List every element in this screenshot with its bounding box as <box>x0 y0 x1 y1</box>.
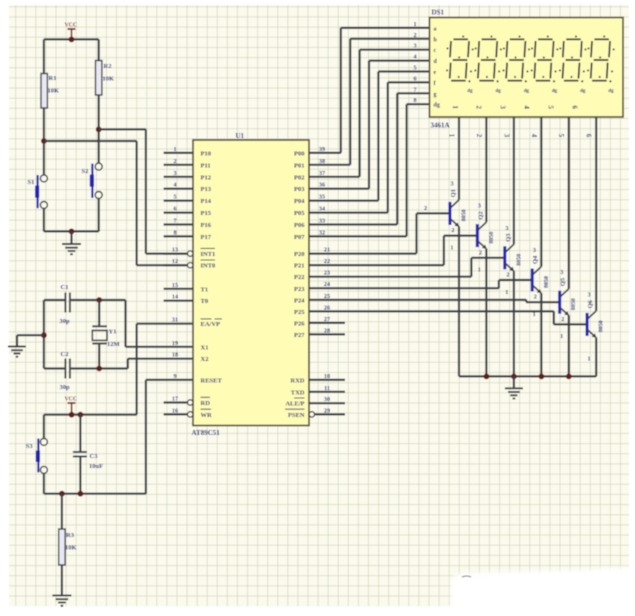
svg-text:Q6: Q6 <box>587 299 594 308</box>
svg-text:1: 1 <box>450 244 453 251</box>
wire Q6 emitter down <box>595 338 597 377</box>
junction dot switches ground tap <box>69 229 75 235</box>
junction dot node INT0/S1 <box>41 138 47 144</box>
wire reset node to RESET pin <box>145 380 147 494</box>
wire Q4 collector to display <box>540 117 542 267</box>
svg-text:8050: 8050 <box>516 254 522 266</box>
wire stub P27 <box>309 333 345 335</box>
wire R2 to junction <box>98 95 100 163</box>
display digit 6 seven-segment glyph <box>594 38 609 40</box>
svg-text:23: 23 <box>324 270 330 277</box>
svg-text:S1: S1 <box>28 179 35 186</box>
svg-text:PSEN: PSEN <box>288 412 305 419</box>
IC U1 pin T1 <box>164 288 193 290</box>
svg-text:6: 6 <box>585 134 592 138</box>
wire X1 corner down <box>124 300 126 347</box>
svg-text:2: 2 <box>173 158 176 165</box>
ground below transistor rail <box>513 376 515 388</box>
IC U1 pin INT1 <box>164 253 188 255</box>
wire X2 corner up <box>127 359 129 369</box>
svg-text:C2: C2 <box>61 351 69 358</box>
svg-text:10K: 10K <box>103 76 115 83</box>
svg-text:16: 16 <box>172 407 178 414</box>
junction dot caps ground tap <box>41 332 47 338</box>
svg-text:10K: 10K <box>65 545 77 552</box>
svg-text:8: 8 <box>173 229 176 236</box>
wire P24 to Q5 base <box>309 299 526 301</box>
svg-text:P10: P10 <box>201 150 211 157</box>
svg-text:VCC: VCC <box>65 23 78 29</box>
svg-text:2: 2 <box>451 227 454 234</box>
svg-text:RD: RD <box>201 400 211 407</box>
svg-text:P20: P20 <box>294 251 304 258</box>
svg-text:29: 29 <box>324 407 330 414</box>
wire stub RXD <box>309 379 345 381</box>
svg-text:30p: 30p <box>60 384 71 391</box>
svg-text:12M: 12M <box>107 341 120 348</box>
svg-text:2: 2 <box>534 294 537 301</box>
junction dot emitter rail 1 <box>484 374 490 380</box>
svg-text:ALE/P: ALE/P <box>285 401 304 408</box>
svg-text:5: 5 <box>557 134 564 138</box>
wire X1 top rail <box>44 299 65 301</box>
junction dot emitter rail 3 <box>539 374 545 380</box>
svg-text:38: 38 <box>319 158 325 165</box>
svg-text:C3: C3 <box>90 453 99 460</box>
svg-text:P02: P02 <box>294 174 304 181</box>
svg-text:15: 15 <box>172 282 178 289</box>
svg-text:Q2: Q2 <box>477 211 484 219</box>
svg-text:8050: 8050 <box>461 209 467 221</box>
svg-text:P24: P24 <box>294 297 305 304</box>
svg-text:Q3: Q3 <box>505 233 512 242</box>
wire P20 to Q1 base <box>309 253 417 255</box>
svg-text:6: 6 <box>413 75 416 82</box>
svg-text:P27: P27 <box>294 332 305 339</box>
svg-text:12: 12 <box>172 258 178 265</box>
svg-text:1: 1 <box>560 333 563 340</box>
svg-text:3: 3 <box>560 269 563 276</box>
svg-text:1: 1 <box>588 355 591 362</box>
svg-text:8: 8 <box>413 97 416 104</box>
svg-text:T0: T0 <box>201 298 209 305</box>
power VCC symbol (top) <box>68 28 76 30</box>
svg-text:S3: S3 <box>26 443 34 450</box>
svg-text:18: 18 <box>172 352 178 359</box>
svg-text:3: 3 <box>505 225 508 232</box>
ground below switches <box>70 231 72 244</box>
svg-text:Q5: Q5 <box>560 277 567 286</box>
svg-text:22: 22 <box>324 258 330 265</box>
svg-text:P07: P07 <box>294 234 305 241</box>
power VCC symbol (reset) <box>68 402 76 404</box>
svg-text:9: 9 <box>173 373 176 380</box>
svg-text:33: 33 <box>319 218 325 225</box>
svg-text:3: 3 <box>478 203 481 210</box>
wire switches bottom rail <box>44 230 99 232</box>
wire reset VCC rail <box>44 414 137 416</box>
display DS1 body <box>430 18 624 118</box>
junction dot node INT1/S2 <box>96 126 102 132</box>
junction dot crystal top <box>96 297 102 303</box>
IC U1 pin WR <box>164 413 188 415</box>
wire Q6 collector to display <box>595 117 597 311</box>
svg-text:35: 35 <box>319 194 325 201</box>
svg-text:10uF: 10uF <box>89 463 103 470</box>
svg-text:3461A: 3461A <box>431 122 450 130</box>
svg-text:1: 1 <box>413 21 416 28</box>
svg-text:RESET: RESET <box>201 377 223 384</box>
wire P05 to display pin f <box>309 212 388 214</box>
wire P25 to Q6 base <box>309 310 554 312</box>
display digit 5 seven-segment glyph <box>566 38 581 40</box>
svg-text:4: 4 <box>173 182 176 189</box>
wire Q3 collector to display <box>513 117 515 244</box>
wire reset bottom rail <box>44 493 146 495</box>
wire Q1 collector to display <box>458 117 460 200</box>
svg-text:1: 1 <box>451 106 458 110</box>
svg-text:P04: P04 <box>294 198 305 205</box>
svg-text:P15: P15 <box>201 210 212 217</box>
svg-text:3: 3 <box>450 180 453 187</box>
svg-text:5: 5 <box>546 106 553 110</box>
svg-text:g: g <box>434 92 437 98</box>
svg-text:3: 3 <box>173 170 176 177</box>
svg-text:8050: 8050 <box>489 232 495 244</box>
svg-text:c: c <box>434 48 437 54</box>
svg-text:R1: R1 <box>49 75 57 82</box>
wire top rail R1-R2 <box>44 38 99 40</box>
junction dot emitter rail 2 <box>511 374 517 380</box>
op IC U1 AT89C51 body <box>193 140 309 426</box>
svg-text:36: 36 <box>319 182 325 189</box>
svg-text:2: 2 <box>424 205 427 212</box>
svg-text:P06: P06 <box>294 222 305 229</box>
svg-text:P13: P13 <box>201 186 212 193</box>
IC U1 pin RD <box>164 401 188 403</box>
wire R3 to ground <box>61 565 63 596</box>
wire P06 to display pin g <box>309 223 397 225</box>
svg-text:27: 27 <box>324 316 330 323</box>
svg-text:P01: P01 <box>294 162 304 169</box>
display digit 1 seven-segment glyph <box>453 38 468 40</box>
svg-text:dg: dg <box>580 89 586 94</box>
svg-text:32: 32 <box>319 229 325 236</box>
junction dot VCC stem <box>69 412 75 418</box>
svg-text:4: 4 <box>413 54 416 61</box>
ground bottom left <box>52 595 71 597</box>
wire R1 to junction <box>43 108 45 176</box>
svg-text:dg: dg <box>467 89 473 94</box>
wire EA to VCC rail <box>136 324 138 415</box>
wire stub TXD <box>309 391 345 393</box>
svg-text:6: 6 <box>570 106 577 110</box>
svg-text:P22: P22 <box>294 274 304 281</box>
wire node S2 to INT1 <box>99 128 146 130</box>
svg-text:WR: WR <box>201 412 213 419</box>
resistor R2 <box>96 61 102 96</box>
svg-text:P26: P26 <box>294 320 305 327</box>
display digit 4 seven-segment glyph <box>538 38 553 40</box>
ground left of caps <box>17 334 44 336</box>
junction dot VCC rail <box>69 37 75 43</box>
svg-text:P21: P21 <box>294 263 304 270</box>
resistor R1 <box>41 74 47 109</box>
svg-text:S2: S2 <box>82 168 89 175</box>
svg-text:1: 1 <box>447 134 454 138</box>
wire P07 to display pin dp <box>309 235 407 237</box>
svg-text:P16: P16 <box>201 222 212 229</box>
svg-text:14: 14 <box>172 294 178 301</box>
crystal Y1 <box>98 300 100 326</box>
svg-text:37: 37 <box>319 170 325 177</box>
svg-text:3: 3 <box>588 291 591 298</box>
junction dot emitter rail 4 <box>566 374 572 380</box>
svg-text:3: 3 <box>413 43 416 50</box>
svg-text:INT0: INT0 <box>201 263 216 270</box>
svg-text:RXD: RXD <box>290 377 304 384</box>
wire Q2 emitter down <box>485 249 487 377</box>
wire P04 to display pin e <box>309 200 378 202</box>
svg-text:T1: T1 <box>201 286 209 293</box>
svg-text:2: 2 <box>479 249 482 256</box>
wire stub ALE <box>309 402 345 404</box>
svg-text:AT89C51: AT89C51 <box>192 429 221 437</box>
svg-text:EA/VP: EA/VP <box>201 321 221 328</box>
svg-text:P23: P23 <box>294 286 305 293</box>
svg-text:dg: dg <box>552 89 558 94</box>
svg-text:30p: 30p <box>60 318 71 325</box>
wire P01 to display pin b <box>309 164 350 166</box>
svg-text:17: 17 <box>172 396 178 403</box>
transistor Q4 8050 <box>531 269 534 292</box>
switch S1 <box>40 175 47 182</box>
wire right column to R2 <box>98 39 100 60</box>
svg-text:2: 2 <box>475 134 482 138</box>
IC U1 pin INT0 <box>164 264 188 266</box>
wire Q5 collector to display <box>568 117 570 289</box>
transistor Q3 8050 <box>503 246 506 269</box>
svg-text:31: 31 <box>172 317 178 324</box>
wire Q2 collector to display <box>485 117 487 222</box>
wire S2 to bottom rail <box>98 198 100 231</box>
svg-text:25: 25 <box>324 293 330 300</box>
wire S1 to bottom rail <box>43 208 45 231</box>
svg-text:P14: P14 <box>201 198 212 205</box>
svg-text:DS1: DS1 <box>432 9 445 17</box>
junction dot C3 top <box>78 412 84 418</box>
capacitor C2 <box>64 359 66 379</box>
wire P03 to display pin d <box>309 188 369 190</box>
svg-text:11: 11 <box>324 385 330 392</box>
switch S2 <box>95 163 102 170</box>
svg-text:8050: 8050 <box>544 276 550 288</box>
svg-text:TXD: TXD <box>291 389 305 396</box>
svg-text:7: 7 <box>173 218 176 225</box>
wire Q5 emitter down <box>568 315 570 376</box>
wire R3 column <box>61 494 63 529</box>
svg-text:R2: R2 <box>104 63 112 70</box>
wire stub P26 <box>309 322 345 324</box>
svg-text:Y1: Y1 <box>109 329 117 336</box>
svg-text:1: 1 <box>533 311 536 318</box>
svg-text:2: 2 <box>475 106 482 110</box>
svg-text:P11: P11 <box>201 162 211 169</box>
svg-text:8050: 8050 <box>571 298 577 310</box>
wire node S1 to INT0 <box>44 140 137 142</box>
wire left column to R1 <box>43 39 45 73</box>
wire P22 to Q3 base <box>309 276 471 278</box>
svg-text:Q4: Q4 <box>532 255 539 264</box>
svg-text:19: 19 <box>172 340 178 347</box>
svg-text:34: 34 <box>319 206 325 213</box>
svg-text:dg: dg <box>496 89 502 94</box>
svg-text:2: 2 <box>413 32 416 39</box>
wire Q3 emitter down <box>513 271 515 376</box>
wire X2 bottom rail <box>44 367 65 369</box>
smudge in blob <box>462 576 471 577</box>
display digit 2 seven-segment glyph <box>482 38 497 40</box>
svg-text:X2: X2 <box>201 356 209 363</box>
resistor R3 <box>59 529 65 565</box>
svg-text:10: 10 <box>324 373 330 380</box>
wire P21 to Q2 base <box>309 264 444 266</box>
svg-text:26: 26 <box>324 304 330 311</box>
svg-text:P03: P03 <box>294 186 305 193</box>
svg-text:3: 3 <box>502 134 509 138</box>
transistor Q5 8050 <box>558 291 561 314</box>
svg-text:P25: P25 <box>294 309 305 316</box>
svg-text:4: 4 <box>530 134 537 138</box>
svg-text:3: 3 <box>499 106 506 110</box>
svg-text:dg: dg <box>608 89 614 94</box>
svg-text:10K: 10K <box>48 88 60 95</box>
wire Q4 emitter down <box>540 293 542 376</box>
svg-text:28: 28 <box>324 327 330 334</box>
wire P23 to Q4 base <box>309 287 499 289</box>
IC U1 left pins P10-P17 <box>164 152 193 154</box>
svg-text:2: 2 <box>506 272 509 279</box>
svg-text:24: 24 <box>324 281 330 288</box>
svg-text:P17: P17 <box>201 234 212 241</box>
junction dot R3 top <box>59 491 65 497</box>
svg-text:1: 1 <box>173 146 176 153</box>
transistor Q6 8050 <box>586 313 589 336</box>
transistor Q1 8050 <box>448 202 451 225</box>
svg-text:2: 2 <box>561 316 564 323</box>
svg-text:30: 30 <box>324 396 330 403</box>
svg-text:6: 6 <box>173 206 176 213</box>
svg-text:13: 13 <box>172 247 178 254</box>
IC U1 pin T0 <box>164 300 193 302</box>
capacitor C1 <box>64 293 66 313</box>
transistor Q2 8050 <box>476 224 479 247</box>
svg-text:VCC: VCC <box>65 397 78 403</box>
svg-text:1: 1 <box>478 267 481 274</box>
svg-text:P12: P12 <box>201 174 211 181</box>
wire left column caps <box>43 300 45 369</box>
svg-text:C1: C1 <box>61 284 69 291</box>
svg-text:X1: X1 <box>201 344 209 351</box>
svg-text:Q1: Q1 <box>450 189 457 197</box>
wire P02 to display pin c <box>309 176 360 178</box>
svg-text:21: 21 <box>324 247 330 254</box>
svg-text:8050: 8050 <box>599 320 605 332</box>
junction dot C3 bottom <box>78 491 84 497</box>
junction dot crystal bottom <box>96 366 102 372</box>
wire emitter common rail <box>459 375 596 377</box>
svg-text:5: 5 <box>173 194 176 201</box>
svg-text:dg: dg <box>434 103 440 109</box>
svg-text:a: a <box>434 26 437 32</box>
display digit 3 seven-segment glyph <box>510 38 525 40</box>
wire Q1 emitter down <box>458 227 460 377</box>
svg-text:e: e <box>434 70 437 76</box>
svg-text:dg: dg <box>524 89 530 94</box>
svg-text:3: 3 <box>533 247 536 254</box>
svg-text:U1: U1 <box>236 132 245 140</box>
svg-text:INT1: INT1 <box>201 251 216 258</box>
svg-text:39: 39 <box>319 146 325 153</box>
svg-text:R3: R3 <box>66 532 75 539</box>
svg-text:7: 7 <box>413 86 416 93</box>
svg-text:5: 5 <box>413 65 416 72</box>
capacitor C3 10uF <box>79 415 81 452</box>
wire P00 to display pin a <box>309 152 341 154</box>
svg-text:P05: P05 <box>294 210 305 217</box>
svg-text:P00: P00 <box>294 150 304 157</box>
svg-text:4: 4 <box>523 106 530 110</box>
switch S3 <box>43 415 45 439</box>
svg-text:1: 1 <box>505 289 508 296</box>
